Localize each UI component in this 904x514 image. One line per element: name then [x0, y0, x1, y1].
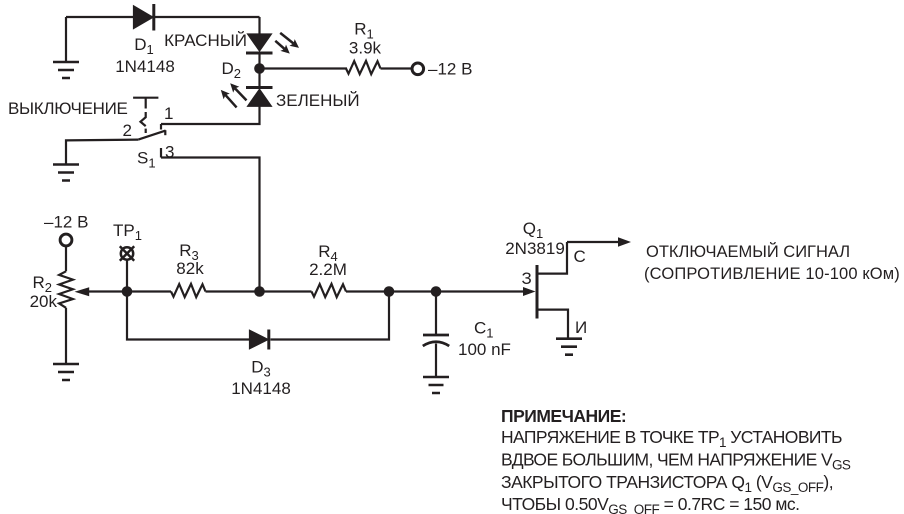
node D3 return junction: [384, 286, 395, 297]
svg-text:TP1: TP1: [113, 221, 142, 243]
svg-text:100 nF: 100 nF: [458, 340, 511, 359]
switch S1 pin1 contact: [160, 124, 162, 130]
svg-text:3.9k: 3.9k: [349, 39, 382, 58]
svg-text:НАПРЯЖЕНИЕ В ТОЧКЕ ТР1 УСТАНОВ: НАПРЯЖЕНИЕ В ТОЧКЕ ТР1 УСТАНОВИТЬ: [501, 427, 842, 450]
svg-text:2N3819: 2N3819: [505, 239, 565, 258]
wire terminal to R2: [65, 246, 67, 271]
resistor R4: [312, 284, 347, 297]
switch S1 blade: [138, 131, 165, 140]
wire red LED to node: [258, 53, 260, 69]
svg-text:ЗЕЛЕНЫЙ: ЗЕЛЕНЫЙ: [276, 91, 360, 110]
ground switch: [53, 165, 79, 181]
ground C1: [423, 377, 449, 393]
svg-text:82k: 82k: [176, 259, 204, 278]
svg-text:1N4148: 1N4148: [231, 379, 291, 398]
wire pin3 to main rail: [161, 158, 260, 292]
wire R2 to ground: [65, 308, 67, 363]
svg-text:2.2M: 2.2M: [309, 260, 347, 279]
wire node to R1: [260, 67, 348, 69]
ground top-left: [53, 17, 79, 78]
diode D3: [250, 330, 269, 350]
wire pin2 to ground: [66, 140, 138, 164]
svg-text:ЗАКРЫТОГО ТРАНЗИСТОРА Q1 (VGS_: ЗАКРЫТОГО ТРАНЗИСТОРА Q1 (VGS_OFF),: [501, 472, 833, 495]
wire LED branch down: [258, 17, 260, 35]
diode D1: [134, 4, 154, 31]
wire C1 branch: [435, 292, 437, 335]
resistor R1: [346, 61, 381, 74]
transistor Q1 drain lead: [538, 242, 567, 274]
svg-text:ЧТОБЫ 0.50VGS_OFF = 0.7RC = 15: ЧТОБЫ 0.50VGS_OFF = 0.7RC = 150 мс.: [501, 494, 799, 514]
svg-text:(СОПРОТИВЛЕНИЕ 10-100 кОм): (СОПРОТИВЛЕНИЕ 10-100 кОм): [644, 265, 900, 283]
svg-text:D2: D2: [221, 59, 241, 81]
svg-text:С: С: [574, 247, 586, 266]
wire green LED to switch pin1: [161, 106, 260, 124]
node S1 branch junction: [254, 286, 265, 297]
svg-text:1N4148: 1N4148: [115, 57, 175, 76]
node C1 junction: [431, 286, 442, 297]
potentiometer R2: [59, 271, 127, 308]
svg-text:20k: 20k: [30, 292, 58, 311]
svg-text:C1: C1: [474, 319, 494, 341]
svg-text:ВДВОЕ БОЛЬШИМ, ЧЕМ НАПРЯЖЕНИЕ: ВДВОЕ БОЛЬШИМ, ЧЕМ НАПРЯЖЕНИЕ VGS: [501, 450, 851, 473]
terminal -12V right: [412, 63, 424, 75]
LED D2 green arrows: [221, 83, 247, 107]
svg-text:З: З: [522, 269, 532, 288]
svg-text:Q1: Q1: [523, 219, 543, 241]
switch S1 blade tip tick: [164, 130, 166, 135]
transistor Q1 source lead: [538, 310, 568, 338]
node D2 junction: [254, 63, 265, 74]
test point TP1: [120, 246, 134, 291]
svg-text:ВЫКЛЮЧЕНИЕ: ВЫКЛЮЧЕНИЕ: [8, 99, 128, 118]
LED D2 red: [246, 35, 273, 54]
svg-text:2: 2: [123, 121, 132, 140]
node TP1 junction: [122, 286, 133, 297]
output arrowhead: [618, 237, 631, 246]
svg-text:D1: D1: [134, 35, 154, 57]
capacitor C1: [423, 335, 449, 376]
wire main rail TP1 to R3: [127, 290, 171, 292]
svg-text:3: 3: [165, 143, 174, 162]
wire D3 branch down and across: [127, 292, 250, 340]
LED D2 green: [246, 88, 273, 106]
LED D2 red arrows: [275, 33, 299, 54]
svg-text:И: И: [575, 318, 587, 337]
switch S1 pin3 contact: [160, 148, 162, 158]
terminal -12V left: [60, 234, 72, 246]
wire R3 to R4: [206, 290, 312, 292]
svg-text:ПРИМЕЧАНИЕ:: ПРИМЕЧАНИЕ:: [501, 406, 626, 426]
ground R2: [53, 364, 79, 380]
switch S1 pushbutton actuator: [133, 98, 158, 133]
svg-text:–12 В: –12 В: [428, 60, 472, 79]
ground Q1 source: [556, 339, 582, 355]
svg-text:ОТКЛЮЧАЕМЫЙ СИГНАЛ: ОТКЛЮЧАЕМЫЙ СИГНАЛ: [646, 242, 850, 261]
wire R4 to gate: [346, 290, 524, 292]
wire node to green LED: [258, 69, 260, 87]
wire D3 to junction: [271, 292, 390, 340]
svg-text:D3: D3: [251, 358, 271, 380]
svg-text:1: 1: [164, 104, 173, 123]
transistor Q1 gate arrow: [523, 287, 536, 296]
svg-text:–12 В: –12 В: [44, 213, 88, 232]
wire top rail: [66, 16, 260, 18]
wire R1 to terminal: [381, 67, 412, 69]
svg-text:КРАСНЫЙ: КРАСНЫЙ: [164, 31, 247, 50]
wire output arrow: [567, 241, 619, 243]
svg-text:S1: S1: [137, 149, 156, 171]
resistor R3: [171, 284, 206, 297]
transistor Q1 channel: [536, 265, 539, 319]
